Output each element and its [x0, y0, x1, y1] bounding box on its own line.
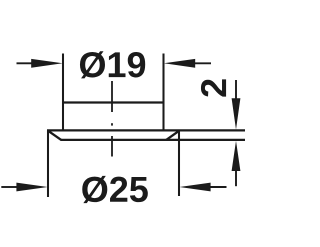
barrel top [62, 101, 165, 103]
right ext line / barrel right side [162, 54, 164, 131]
centerline axis [111, 81, 113, 157]
flange top + ext line for 2 [47, 129, 245, 131]
dimension O25 [1, 183, 226, 192]
dimension 2 (vertical, right) [232, 80, 241, 186]
O25 left ext line [47, 130, 49, 197]
flange right chamfer [166, 130, 179, 140]
flange left chamfer [48, 130, 62, 140]
O25 right ext line [178, 130, 180, 196]
dimension O19 [17, 59, 212, 68]
extension lines + barrel sides [48, 54, 179, 198]
flange bottom + ext line for 2 [61, 139, 246, 141]
part outline: barrel [47, 103, 245, 140]
left ext line / barrel left side [62, 54, 64, 131]
